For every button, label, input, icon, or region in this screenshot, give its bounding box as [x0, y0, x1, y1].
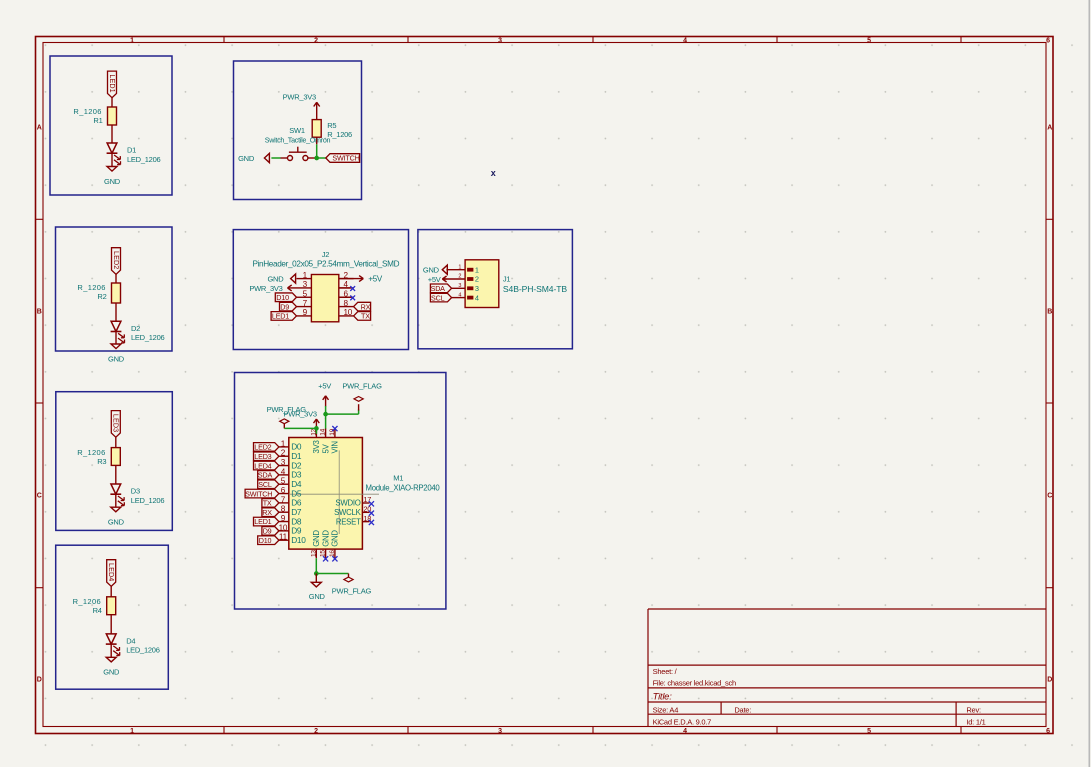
wire	[316, 137, 318, 144]
svg-text:4: 4	[475, 293, 479, 302]
svg-text:RX: RX	[361, 302, 371, 311]
svg-text:KiCad E.D.A. 9.0.7: KiCad E.D.A. 9.0.7	[653, 717, 712, 726]
wire	[326, 413, 359, 415]
svg-text:11: 11	[279, 533, 288, 542]
svg-text:+5V: +5V	[368, 275, 383, 284]
svg-text:Date:: Date:	[734, 705, 751, 714]
svg-text:B: B	[37, 309, 42, 316]
switch block outline	[234, 61, 362, 200]
svg-text:LED_1206: LED_1206	[131, 333, 165, 342]
M1 pin 3 D2	[279, 465, 289, 467]
ground	[442, 265, 447, 274]
M1 pin 16 GND	[334, 549, 336, 558]
svg-text:LED1: LED1	[254, 517, 271, 526]
svg-text:GND: GND	[108, 518, 125, 527]
resistor R4	[107, 597, 116, 615]
svg-text:1: 1	[130, 728, 134, 735]
M1 pin 1 D0	[279, 446, 289, 448]
svg-text:3: 3	[475, 284, 479, 293]
svg-text:TX: TX	[361, 312, 370, 321]
J2 pin 9	[297, 315, 312, 317]
wire	[115, 465, 117, 484]
J2 pin 3	[297, 287, 312, 289]
svg-text:5V: 5V	[321, 443, 330, 453]
svg-text:3: 3	[281, 458, 286, 467]
svg-text:2: 2	[314, 37, 318, 44]
power flag PWR_FLAG	[348, 574, 350, 578]
svg-text:M1: M1	[393, 474, 403, 483]
svg-text:9: 9	[303, 308, 308, 317]
svg-text:R_1206: R_1206	[77, 283, 105, 292]
connector J1	[465, 260, 499, 308]
LED D1	[107, 143, 117, 153]
no-connect VIN	[332, 426, 337, 431]
no-connect	[369, 501, 374, 506]
global label LED1	[108, 71, 117, 98]
svg-text:R1: R1	[93, 116, 102, 125]
svg-text:LED4: LED4	[254, 461, 271, 470]
resistor R2	[112, 283, 121, 303]
svg-text:D10: D10	[291, 535, 306, 545]
svg-text:GND: GND	[267, 275, 284, 284]
svg-text:9: 9	[281, 514, 286, 523]
M1 pin 4 D3	[279, 474, 289, 476]
svg-text:R_1206: R_1206	[327, 130, 352, 139]
M1 pin 9 D8	[279, 521, 289, 523]
wire	[284, 427, 316, 429]
M1 pin 10 D9	[279, 530, 289, 532]
global label RX	[354, 302, 371, 311]
svg-text:2: 2	[314, 728, 318, 735]
global label D9	[262, 527, 279, 536]
svg-text:Module_XIAO-RP2040: Module_XIAO-RP2040	[366, 484, 441, 493]
svg-text:Size: A4: Size: A4	[653, 705, 679, 714]
svg-text:D4: D4	[126, 636, 135, 645]
global label D9	[280, 302, 297, 311]
svg-text:8: 8	[344, 299, 349, 308]
J2 pin 4	[339, 287, 354, 289]
J1 pin 1	[467, 268, 473, 272]
svg-text:D2: D2	[131, 324, 140, 333]
svg-text:5: 5	[867, 37, 871, 44]
J2 pin 10	[339, 315, 354, 317]
svg-text:C: C	[37, 493, 42, 500]
svg-text:1: 1	[475, 265, 479, 274]
svg-text:3: 3	[458, 283, 461, 289]
svg-text:10: 10	[279, 523, 288, 532]
svg-text:Id: 1/1: Id: 1/1	[966, 717, 985, 726]
svg-text:3V3: 3V3	[312, 440, 321, 453]
no-connect	[369, 511, 374, 516]
svg-text:GND: GND	[309, 592, 326, 601]
wire	[111, 153, 113, 166]
svg-text:4: 4	[683, 37, 687, 44]
global label LED4	[254, 461, 279, 470]
global label LED3	[111, 411, 120, 438]
J2 pin 8	[339, 306, 354, 308]
M1 pin 12 3V3	[315, 428, 317, 437]
svg-text:Rev:: Rev:	[966, 705, 981, 714]
wire	[316, 573, 348, 575]
svg-text:Title:: Title:	[653, 691, 673, 702]
global label D10	[258, 536, 279, 545]
no-connect	[369, 520, 374, 525]
svg-text:D: D	[37, 677, 42, 684]
ground	[291, 274, 296, 283]
svg-text:4: 4	[683, 728, 687, 735]
global label LED3	[254, 452, 279, 461]
wire	[115, 437, 117, 447]
svg-text:14: 14	[320, 428, 327, 435]
svg-text:1: 1	[303, 271, 308, 280]
wire	[317, 157, 326, 159]
junction	[314, 571, 319, 576]
M1 pin 6 D5	[279, 493, 289, 495]
svg-text:LED1: LED1	[108, 74, 117, 92]
LED D4	[106, 634, 116, 644]
junction	[314, 426, 319, 431]
svg-text:LED1: LED1	[272, 312, 289, 321]
resistor R3	[111, 448, 120, 466]
svg-text:R3: R3	[97, 457, 106, 466]
svg-text:5: 5	[867, 728, 871, 735]
M1 pin 15 GND	[325, 549, 327, 558]
svg-text:PWR_3V3: PWR_3V3	[284, 409, 317, 418]
svg-text:3: 3	[498, 37, 502, 44]
no-connect	[332, 556, 337, 561]
svg-text:J2: J2	[322, 250, 330, 259]
svg-text:R_1206: R_1206	[77, 448, 105, 457]
svg-text:6: 6	[281, 486, 286, 495]
svg-text:SCL: SCL	[431, 293, 445, 302]
svg-text:D10: D10	[259, 536, 272, 545]
wire	[111, 125, 113, 143]
svg-text:RESET: RESET	[336, 517, 361, 526]
canvas right edge	[1088, 0, 1090, 767]
svg-text:7: 7	[281, 495, 286, 504]
global label RX	[262, 508, 279, 517]
wire	[115, 494, 117, 507]
svg-text:D3: D3	[131, 487, 140, 496]
global label SCL	[430, 293, 451, 302]
wire	[115, 332, 117, 345]
M1 pin 5 D4	[279, 483, 289, 485]
wire	[325, 406, 327, 414]
svg-text:GND: GND	[321, 530, 330, 547]
svg-text:1: 1	[458, 264, 461, 270]
ground	[107, 167, 117, 172]
LED D3	[111, 484, 121, 494]
svg-text:VIN: VIN	[331, 441, 340, 453]
wire	[115, 303, 117, 321]
svg-text:PWR_3V3: PWR_3V3	[249, 284, 282, 293]
no-connect	[339, 296, 351, 298]
svg-text:SWDIO: SWDIO	[335, 499, 360, 508]
J2 pin 6	[339, 296, 354, 298]
svg-text:D10: D10	[276, 293, 289, 302]
svg-text:LED3: LED3	[112, 414, 121, 432]
svg-text:1: 1	[281, 439, 286, 448]
wire	[110, 615, 112, 634]
svg-text:R_1206: R_1206	[73, 107, 101, 116]
LED1 block outline	[50, 56, 172, 195]
svg-text:1: 1	[130, 37, 134, 44]
global label LED1	[254, 517, 279, 526]
svg-text:GND: GND	[103, 668, 120, 677]
J2 pin 2	[339, 278, 354, 280]
frame column ticks	[223, 37, 225, 43]
J2 block outline	[233, 230, 408, 350]
M1 pin 8 D7	[279, 511, 289, 513]
svg-text:R4: R4	[93, 606, 102, 615]
svg-text:PinHeader_02x05_P2.54mm_Vertic: PinHeader_02x05_P2.54mm_Vertical_SMD	[252, 260, 399, 269]
svg-text:4: 4	[281, 467, 286, 476]
svg-text:6: 6	[1046, 37, 1050, 44]
M1 pin 11 D10	[279, 539, 289, 541]
resistor R1	[108, 107, 117, 125]
svg-text:R_1206: R_1206	[73, 597, 101, 606]
LED2 block outline	[56, 227, 173, 351]
M1 pin 2 D1	[279, 455, 289, 457]
global label SDA	[258, 471, 279, 480]
svg-text:GND: GND	[423, 266, 440, 275]
svg-text:Sheet: /: Sheet: /	[653, 667, 678, 676]
svg-text:LED_1206: LED_1206	[126, 646, 160, 655]
LED3 block outline	[56, 392, 173, 531]
resistor R5	[312, 120, 321, 138]
M1 block outline	[235, 373, 446, 610]
wire	[110, 644, 112, 657]
svg-text:15: 15	[320, 550, 327, 557]
ground	[111, 507, 121, 512]
global label SWITCH	[326, 154, 360, 163]
svg-text:LED_1206: LED_1206	[131, 496, 165, 505]
junction	[323, 412, 328, 417]
wire	[110, 586, 112, 597]
wire	[315, 558, 317, 573]
svg-text:D1: D1	[127, 146, 136, 155]
svg-text:SDA: SDA	[431, 284, 446, 293]
svg-text:RX: RX	[262, 508, 272, 517]
J2 pin 5	[297, 296, 312, 298]
svg-text:C: C	[1047, 493, 1052, 500]
wire	[111, 98, 113, 107]
svg-text:SWCLK: SWCLK	[334, 508, 362, 517]
ground	[106, 657, 116, 662]
J2 pin 7	[297, 306, 312, 308]
global label LED2	[254, 443, 279, 452]
junction	[314, 156, 319, 161]
power +5V	[442, 278, 446, 280]
M1 pin 17 SWDIO	[362, 502, 369, 504]
svg-text:16: 16	[329, 550, 336, 557]
svg-text:PWR_3V3: PWR_3V3	[283, 93, 316, 102]
wire	[325, 414, 327, 429]
svg-text:PWR_FLAG: PWR_FLAG	[332, 586, 372, 595]
global label D10	[275, 293, 296, 302]
LED4 block outline	[56, 545, 169, 689]
svg-text:LED3: LED3	[254, 452, 271, 461]
svg-text:3: 3	[498, 728, 502, 735]
svg-text:GND: GND	[312, 530, 321, 547]
J1 pin 3	[467, 286, 473, 290]
global label LED4	[107, 560, 116, 587]
svg-text:4: 4	[458, 292, 461, 298]
wire	[115, 274, 117, 283]
global label TX	[354, 312, 371, 321]
svg-text:10: 10	[344, 308, 353, 317]
M1 pin 13 GND	[315, 549, 317, 558]
svg-text:5: 5	[303, 289, 308, 298]
svg-text:Switch_Tactile_Omron: Switch_Tactile_Omron	[265, 136, 331, 145]
svg-text:GND: GND	[108, 354, 125, 363]
svg-text:R2: R2	[97, 292, 106, 301]
svg-text:+5V: +5V	[428, 275, 441, 284]
svg-text:A: A	[37, 125, 42, 132]
global label SDA	[430, 284, 451, 293]
svg-text:LED2: LED2	[254, 443, 271, 452]
svg-text:A: A	[1047, 125, 1052, 132]
wire	[315, 428, 317, 433]
module anchor cross	[289, 493, 379, 495]
ground	[315, 574, 317, 583]
svg-text:B: B	[1047, 309, 1052, 316]
M1 pin 18 RESET	[362, 521, 369, 523]
svg-text:S4B-PH-SM4-TB: S4B-PH-SM4-TB	[503, 284, 567, 294]
global label LED2	[112, 248, 121, 275]
power +5V	[339, 278, 363, 280]
title block	[647, 609, 649, 727]
svg-text:J1: J1	[503, 275, 511, 284]
global label LED1	[271, 312, 296, 321]
svg-text:SW1: SW1	[289, 126, 305, 135]
svg-text:7: 7	[303, 299, 308, 308]
LED D2	[111, 321, 121, 331]
svg-text:2: 2	[475, 275, 479, 284]
svg-text:5: 5	[281, 477, 286, 486]
J2 pin 1	[297, 278, 312, 280]
svg-text:GND: GND	[104, 177, 121, 186]
svg-text:8: 8	[281, 505, 286, 514]
svg-text:3: 3	[303, 280, 308, 289]
svg-text:SWITCH: SWITCH	[245, 489, 272, 498]
M1 pin 19 VIN	[334, 428, 336, 437]
svg-text:6: 6	[1046, 728, 1050, 735]
svg-text:x: x	[491, 168, 496, 178]
svg-text:TX: TX	[263, 499, 272, 508]
M1 pin 7 D6	[279, 502, 289, 504]
power PWR_3V3	[288, 287, 297, 289]
svg-text:LED2: LED2	[112, 251, 121, 269]
global label SCL	[258, 480, 279, 489]
svg-text:D9: D9	[263, 527, 272, 536]
svg-text:2: 2	[281, 449, 286, 458]
svg-text:13: 13	[310, 550, 317, 557]
svg-text:LED_1206: LED_1206	[127, 155, 161, 164]
J1 pin 4	[467, 296, 473, 300]
no-connect	[339, 287, 351, 289]
module M1 XIAO RP2040	[289, 438, 363, 550]
global label TX	[262, 499, 279, 508]
svg-text:+5V: +5V	[318, 382, 331, 391]
svg-text:D9: D9	[280, 302, 289, 311]
svg-text:PWR_FLAG: PWR_FLAG	[342, 382, 382, 391]
M1 pin 20 SWCLK	[362, 511, 369, 513]
ground	[111, 344, 121, 349]
svg-text:GND: GND	[238, 154, 255, 163]
svg-text:SCL: SCL	[258, 480, 272, 489]
J1 block outline	[418, 230, 573, 349]
global label SWITCH	[245, 489, 279, 498]
no-connect	[323, 556, 328, 561]
svg-text:R5: R5	[327, 121, 336, 130]
M1 pin 14 5V	[325, 428, 327, 437]
frame row ticks	[36, 218, 44, 220]
svg-text:File: chasser led.kicad_sch: File: chasser led.kicad_sch	[653, 678, 736, 687]
J1 pin 2	[467, 277, 473, 281]
svg-text:SDA: SDA	[258, 471, 273, 480]
svg-text:GND: GND	[331, 530, 340, 547]
svg-text:SWITCH: SWITCH	[332, 154, 359, 163]
svg-text:D: D	[1047, 677, 1052, 684]
svg-text:LED4: LED4	[107, 563, 116, 581]
svg-text:2: 2	[458, 274, 461, 280]
